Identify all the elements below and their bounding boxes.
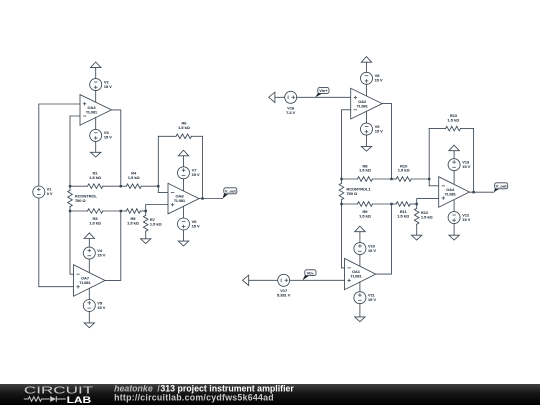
svg-text:V_out: V_out (496, 183, 508, 188)
wire OA7 - input up to node C (70, 211, 74, 274)
resistor R5 1.5 k&#937; (121, 209, 146, 226)
VCC supply arrow for V7 (178, 150, 188, 156)
svg-text:15 V: 15 V (104, 84, 112, 89)
node junction E (R5 / R7 / OA8 +) (145, 210, 147, 212)
wire VCC arrow to V7 (183, 156, 185, 167)
wire OA8 output to V_out flag (199, 198, 223, 200)
wire VCC arrow to V10 (359, 232, 361, 243)
resistor R9 1.5 k&#937; (342, 202, 392, 219)
resistor RCONTROL1 750 &#937; (339, 179, 371, 204)
voltage source V2 (90, 79, 113, 91)
resistor R8 1.5 k&#937; (342, 163, 392, 181)
svg-text:15 V: 15 V (104, 135, 112, 140)
resistor R4 1.5 k&#937; (121, 171, 159, 189)
node junction A (RCONTROL top) (69, 185, 71, 187)
ground below R7 (141, 239, 151, 244)
wire OA2 output down to R8/R10 node (382, 104, 391, 179)
wire OA2 V- pin to V9 (366, 111, 368, 123)
node junction G (OA8 out / R6) (201, 197, 203, 199)
wire V5 to ground (88, 312, 90, 323)
voltage source V6 (178, 218, 201, 230)
wire V13 to OA4 V+ pin (453, 171, 455, 184)
voltage source V8 (361, 72, 384, 84)
wire OA7 V- pin to V5 (88, 289, 90, 300)
svg-text:V_out: V_out (225, 188, 237, 193)
svg-text:1.5 kΩ: 1.5 kΩ (398, 168, 410, 173)
node flag V_out (left circuit) (223, 188, 237, 199)
wire VCC arrow to V8 (366, 62, 368, 72)
voltage source V17 (277, 274, 291, 297)
node junction N (OA4 out / R13) (472, 191, 474, 193)
VCC supply arrow for V4 (84, 233, 94, 239)
op-amp OA8 (TL081) (168, 183, 199, 214)
wire V7 to OA8 V+ pin (183, 179, 185, 191)
svg-text:Vin+: Vin+ (319, 88, 328, 93)
voltage source V9 (361, 123, 384, 135)
wire to OA4 - input (429, 185, 439, 187)
VCC supply arrow for V2 (91, 62, 101, 68)
svg-text:1.5 kΩ: 1.5 kΩ (421, 215, 433, 220)
svg-text:1.5 kΩ: 1.5 kΩ (89, 220, 101, 225)
op-amp OA4 (TL081) (439, 177, 470, 208)
wire VCC arrow to V4 (88, 239, 90, 248)
ground below V12 (449, 235, 459, 240)
node junction M (R10 / OA4 -) (428, 178, 430, 180)
logo resistor symbol (24, 397, 50, 402)
node junction F (R4 / OA8 -) (157, 185, 159, 187)
node junction J (RCONTROL1 bottom) (340, 203, 342, 205)
voltage source V7 (178, 167, 201, 179)
op-amp OA1 (TL081) (345, 259, 376, 290)
op-amp OA3 (TL081) (80, 95, 112, 126)
node junction B (OA3 out / R1 / R4) (120, 185, 122, 187)
resistor R1 1.5 k&#937; (70, 171, 121, 189)
svg-text:15 V: 15 V (375, 128, 383, 133)
svg-text:750 Ω: 750 Ω (75, 198, 86, 203)
wire OA3 output down to R1/R4 node (112, 110, 121, 186)
svg-text:TL081: TL081 (79, 280, 91, 285)
wire OA3 - input to node A (70, 116, 80, 186)
voltage source V16 (285, 91, 297, 115)
svg-text:15 V: 15 V (368, 248, 376, 253)
resistor RCONTROL 750 &#937; (68, 186, 98, 211)
node junction K (OA1 out / R9 / R11) (390, 203, 392, 205)
svg-text:1.5 kΩ: 1.5 kΩ (127, 220, 139, 225)
VCC supply arrow for V8 (361, 57, 371, 63)
svg-text:3 V: 3 V (47, 191, 53, 196)
ground (left-pointing) at V16 (269, 92, 275, 102)
wire VCC arrow to V2 (95, 68, 97, 79)
ground below V6 (178, 241, 188, 246)
wire ground to V16 (275, 96, 285, 98)
wire left leg of R6 loop (157, 136, 159, 192)
wire OA2 - input down to node H (342, 110, 351, 179)
wire OA1 - input up to node J (342, 204, 345, 268)
wire V8 to OA2 V+ pin (366, 84, 368, 96)
wire OA7 output up to node D (105, 211, 121, 280)
wire node L up to OA4 + input (417, 199, 439, 204)
svg-text:15 V: 15 V (462, 164, 470, 169)
logo diode symbol (50, 396, 56, 402)
svg-text:1.5 kΩ: 1.5 kΩ (128, 175, 140, 180)
voltage source V1 (33, 186, 53, 198)
svg-text:TL081: TL081 (350, 274, 362, 279)
svg-text:TL081: TL081 (357, 103, 369, 108)
wire left leg of R13 loop (428, 129, 430, 186)
wire to OA8 - input (158, 192, 168, 194)
VCC supply arrow for V13 (449, 145, 459, 151)
svg-text:15 V: 15 V (97, 305, 105, 310)
svg-text:15 V: 15 V (375, 78, 383, 83)
svg-text:http://circuitlab.com/cydfws5k: http://circuitlab.com/cydfws5k644ad (114, 393, 274, 403)
wire VCC arrow to V13 (453, 151, 455, 159)
node junction C (RCONTROL bottom) (69, 210, 71, 212)
svg-text:15 V: 15 V (192, 172, 200, 177)
op-amp OA2 (TL081) (351, 88, 383, 119)
wire V9 to ground (366, 135, 368, 146)
svg-text:1.5 kΩ: 1.5 kΩ (89, 175, 101, 180)
svg-text:1.5 kΩ: 1.5 kΩ (448, 117, 460, 122)
wire V1 to OA7 + input (39, 198, 74, 287)
node flag Vin+ (315, 88, 329, 98)
voltage source V5 (83, 300, 105, 312)
node flag V_out (right circuit) (494, 183, 508, 193)
svg-text:1.5 kΩ: 1.5 kΩ (359, 168, 371, 173)
VCC supply arrow for V10 (355, 226, 365, 232)
svg-text:1.5 kΩ: 1.5 kΩ (150, 222, 162, 227)
svg-text:750 Ω: 750 Ω (346, 191, 357, 196)
ground (left-pointing) at V17 (243, 275, 249, 285)
svg-text:TL081: TL081 (174, 198, 186, 203)
ground below V9 (361, 146, 371, 151)
ground below V11 (355, 317, 365, 322)
svg-text:7.3 V: 7.3 V (286, 110, 295, 115)
op-amp OA7 (TL081) (74, 265, 106, 297)
wire V10 to OA1 V+ pin (359, 255, 361, 267)
svg-text:5.331 V: 5.331 V (277, 293, 291, 298)
voltage source V3 (90, 129, 113, 141)
resistor R13 1.5 k&#937; (429, 113, 473, 131)
ground below R12 (412, 235, 422, 240)
node flag Vin- (302, 270, 316, 281)
node junction D (OA7 out / R3 / R5) (120, 210, 122, 212)
svg-text:15 V: 15 V (97, 252, 105, 257)
resistor R6 1.5 k&#937; (158, 121, 202, 139)
wire node E up to OA8 + input (146, 205, 168, 212)
node junction I (OA2 out / R8 / R10) (390, 178, 392, 180)
voltage source V13 (448, 159, 471, 171)
svg-text:15 V: 15 V (192, 223, 200, 228)
wire V3 to ground (95, 141, 97, 152)
voltage source V10 (354, 243, 377, 255)
resistor R12 1.5 k&#937; (414, 204, 432, 235)
svg-text:TL081: TL081 (445, 192, 457, 197)
wire OA1 V- pin to V11 (359, 282, 361, 292)
node junction H (RCONTROL1 top) (340, 178, 342, 180)
resistor R10 1.5 k&#937; (392, 163, 430, 181)
wire V1 to OA3 + input (39, 104, 80, 186)
resistor R7 1.5 k&#937; (143, 211, 161, 239)
voltage source V11 (354, 292, 377, 304)
voltage source V4 (83, 247, 105, 259)
wire V11 to ground (359, 304, 361, 317)
wire V17 to OA1 + input (290, 279, 345, 281)
wire OA4 output to V_out flag (469, 191, 493, 193)
wire V6 to ground (183, 230, 185, 241)
svg-text:Vin-: Vin- (307, 270, 315, 275)
wire right leg of R13 loop (473, 129, 475, 193)
node junction L (R11 / R12 / OA4 +) (416, 203, 418, 205)
ground below V3 (91, 152, 101, 157)
svg-text:1.5 kΩ: 1.5 kΩ (397, 213, 409, 218)
svg-text:1.5 kΩ: 1.5 kΩ (359, 213, 371, 218)
wire right leg of R6 loop (202, 136, 204, 198)
svg-text:TL081: TL081 (86, 110, 98, 115)
wire OA1 output up to node K (376, 204, 392, 274)
wire OA3 V- pin to V3 (95, 118, 97, 130)
wire V16 to OA2 + input (297, 96, 351, 98)
wire OA8 V- pin to V6 (183, 206, 185, 218)
voltage source V12 (448, 212, 471, 224)
wire V4 to OA7 V+ pin (88, 259, 90, 272)
resistor R3 1.5 k&#937; (70, 209, 121, 226)
wire V12 to ground (453, 224, 455, 236)
wire OA4 V- pin to V12 (453, 201, 455, 212)
svg-text:15 V: 15 V (368, 297, 376, 302)
ground below V5 (84, 323, 94, 328)
svg-text:15 V: 15 V (462, 217, 470, 222)
svg-text:1.5 kΩ: 1.5 kΩ (178, 125, 190, 130)
wire ground to V17 (249, 279, 278, 281)
wire V2 to OA3 V+ pin (95, 91, 97, 103)
resistor R11 1.5 k&#937; (392, 202, 417, 219)
svg-text:LAB: LAB (67, 395, 92, 405)
